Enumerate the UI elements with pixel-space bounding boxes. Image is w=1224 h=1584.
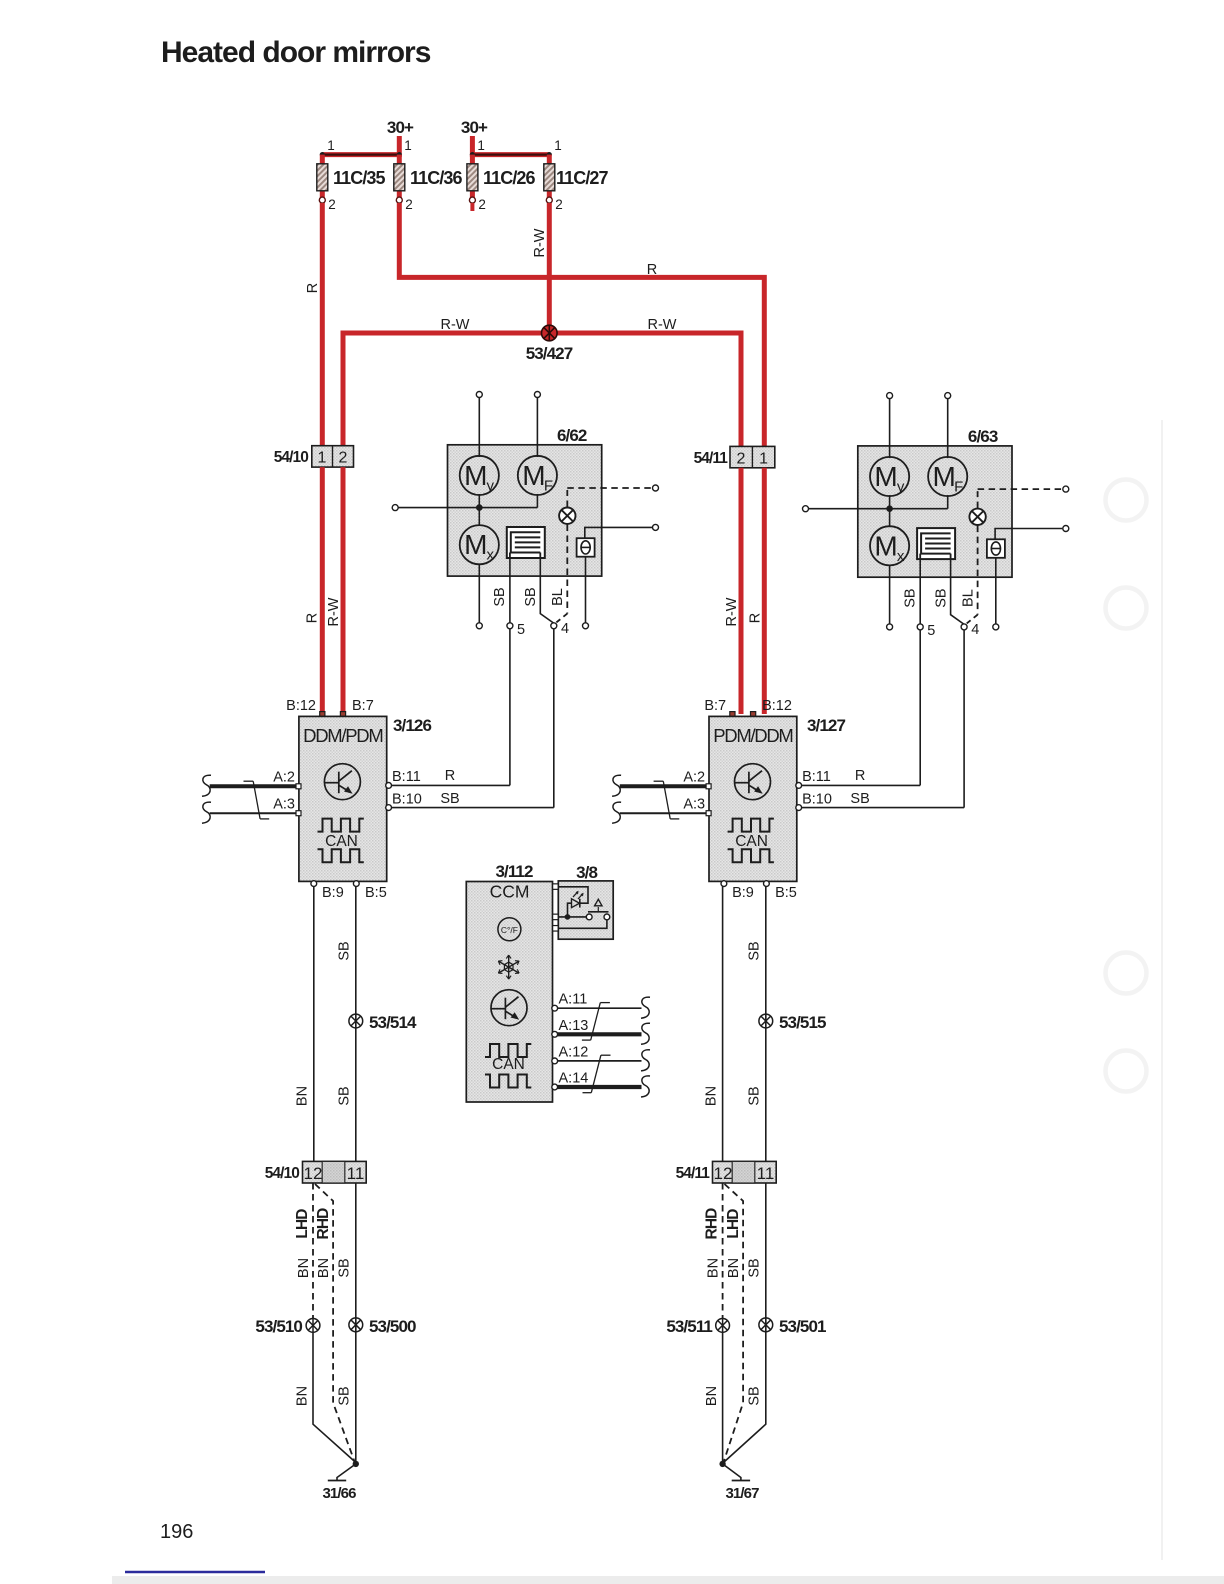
fuse 11C/36 [394, 138, 463, 212]
mirror unit 6/63 body [858, 446, 1012, 577]
splice 53/511 [716, 1319, 730, 1333]
svg-text:A:14: A:14 [559, 1071, 589, 1087]
control module 3/112 label [495, 862, 533, 881]
dashed wire LHD from 54/10 pin12 to splice 53/510 [312, 1183, 314, 1318]
label R [748, 613, 764, 623]
wire CAN-L A:3 of 3/127 [620, 812, 707, 814]
twisted pair marker CCM upper [582, 1003, 610, 1041]
wire R from B:11 of 3/126 [392, 784, 510, 786]
svg-text:2: 2 [339, 450, 348, 467]
svg-text:31/67: 31/67 [725, 1485, 759, 1502]
svg-text:1: 1 [404, 138, 412, 153]
pin B:11 of 3/127 [796, 769, 831, 788]
wire R from fuse 11C/35 pin2 down to connector 54/10 pin 1 [320, 203, 325, 447]
wire fuse 11C/35 body to pin2 [320, 189, 325, 200]
heater element of 6/63 [917, 528, 955, 559]
door module 3/126 title [303, 725, 382, 746]
switch 3/8 body [558, 881, 613, 939]
label SB [337, 1258, 353, 1277]
wire heater pin 5 of 6/62 [509, 558, 511, 623]
label SB on B:10 wire of 3/126 [440, 791, 459, 807]
svg-text:SB: SB [850, 791, 869, 807]
wire stub into 6/63 motor My [889, 446, 891, 458]
svg-text:53/515: 53/515 [779, 1013, 826, 1032]
terminal right solid of 6/62 [653, 524, 659, 530]
terminal above 6/62 My [476, 392, 482, 398]
terminal below Mx of 6/63 [887, 624, 893, 630]
svg-text:11C/36: 11C/36 [410, 168, 463, 188]
wire A:14 CAN bus [558, 1085, 642, 1089]
mirror unit 6/62 body [448, 445, 602, 576]
svg-text:BN: BN [296, 1258, 312, 1278]
door module 3/127 label [807, 716, 845, 735]
door module 3/127 body [709, 716, 797, 881]
pin B:7 of 3/127 [704, 698, 735, 717]
dashed wire BL lamp of 6/62 to terminal 4 [555, 525, 567, 624]
svg-text:y: y [897, 479, 905, 496]
svg-text:RHD: RHD [315, 1208, 332, 1240]
svg-text:SB: SB [337, 1258, 353, 1277]
terminal left of 6/63 [803, 506, 809, 512]
wire fuse 11C/36 body to pin2 [397, 189, 402, 200]
svg-text:BN: BN [704, 1386, 720, 1406]
wire stub 6/62 MF to crossbar [536, 494, 538, 508]
wire SB from B:10 of 3/127 [802, 807, 965, 809]
label BL of 6/62 [550, 588, 566, 606]
svg-text:54/10: 54/10 [274, 449, 309, 466]
svg-text:2: 2 [328, 197, 336, 212]
svg-text:3/127: 3/127 [807, 716, 845, 735]
svg-text:1: 1 [554, 138, 562, 153]
svg-text:A:2: A:2 [273, 770, 295, 786]
wire CAN-L A:3 of 3/126 [210, 812, 297, 814]
CAN symbol in 3/126 [318, 819, 364, 863]
heater element of 6/62 [507, 527, 545, 558]
label R on 11C/35 wire [305, 283, 321, 293]
label BN [296, 1258, 312, 1278]
label 53/427 [526, 344, 573, 363]
wire SB from 54/10 pin11 through splice 53/500 to ground 31/66 [355, 1183, 357, 1463]
wire stub into 6/63 motor MF [947, 446, 949, 458]
svg-text:4: 4 [561, 621, 569, 637]
cable break squiggle A:2 of 3/126 [202, 775, 211, 796]
svg-text:A:2: A:2 [683, 770, 705, 786]
terminal below theta of 6/62 [583, 623, 589, 629]
wire theta of 6/62 to right terminal [585, 527, 652, 538]
wire heater pin 4 of 6/63 [951, 559, 964, 624]
wire SB from 3/127 B:5 to 54/11 pin 11 [765, 887, 767, 1162]
pin B:12 of 3/127 [751, 698, 792, 717]
label 53/500 [369, 1317, 416, 1336]
wire R from fuse 11C/36 pin2 to connector 54/11 pin 1 [399, 203, 764, 447]
wire to 6/63 motor MF [947, 398, 949, 509]
label 31/67 [725, 1485, 759, 1502]
svg-text:R: R [748, 613, 764, 623]
svg-text:SB: SB [523, 587, 539, 606]
wire between 6/62 My and Mx [478, 494, 480, 526]
svg-text:B:5: B:5 [775, 885, 797, 901]
dashed wire RHD from 54/10 pin12 [315, 1184, 355, 1462]
svg-text:2: 2 [737, 451, 746, 468]
motor MF of 6/62 [518, 456, 557, 495]
wire left pin of 6/62 [398, 507, 537, 509]
wire theta of 6/62 down to terminal [585, 557, 587, 623]
svg-text:B:11: B:11 [392, 769, 421, 785]
svg-text:R: R [305, 283, 321, 293]
svg-text:M: M [464, 529, 487, 560]
junction dot in 6/62 [476, 504, 483, 511]
wire heater pin 4 of 6/62 [540, 558, 553, 623]
cable break squiggle A:13 [641, 1023, 650, 1044]
svg-text:M: M [522, 460, 545, 491]
label 53/515 [779, 1013, 826, 1032]
svg-text:5: 5 [517, 622, 525, 638]
splice 53/500 [349, 1318, 363, 1332]
svg-text:2: 2 [555, 197, 563, 212]
wire Mx of 6/63 to terminal [889, 565, 891, 624]
node 30+ (left feed) [387, 118, 414, 137]
svg-text:R-W: R-W [326, 597, 342, 626]
pin A:3 of 3/127 [683, 797, 711, 816]
pin A:3 of 3/126 [273, 797, 301, 816]
cable break squiggle A:3 of 3/126 [202, 802, 211, 823]
svg-text:53/501: 53/501 [779, 1317, 826, 1336]
wire A:11 CAN bus [558, 1007, 642, 1009]
label 53/514 [369, 1013, 417, 1032]
pin B:5 of 3/126 [353, 881, 386, 901]
wire Mx of 6/62 to terminal [478, 564, 480, 623]
svg-text:M: M [464, 460, 487, 491]
svg-text:A:3: A:3 [683, 797, 705, 813]
wire R-W from 54/11 pin2 to 3/127 B:7 [739, 468, 744, 714]
svg-text:CCM: CCM [490, 882, 530, 902]
lamp (heater indicator) of 6/63 [969, 509, 985, 525]
svg-text:SB: SB [747, 1386, 763, 1405]
svg-text:B:9: B:9 [732, 885, 754, 901]
connector 54/10 (bottom) [265, 1161, 366, 1183]
label SB [747, 941, 763, 960]
svg-text:R: R [855, 768, 865, 784]
svg-text:12: 12 [304, 1164, 323, 1183]
label R-W on 11C/27 wire [532, 228, 548, 257]
snowflake symbol in CCM [498, 955, 519, 979]
motor Mx of 6/63 [870, 526, 909, 565]
pin A:2 of 3/126 [273, 770, 301, 789]
svg-text:30+: 30+ [387, 118, 414, 137]
svg-text:2: 2 [478, 197, 486, 212]
terminal 4 of 6/62 [551, 623, 557, 629]
connector 54/10 (top) [274, 446, 354, 467]
svg-text:BL: BL [550, 588, 566, 606]
svg-text:53/511: 53/511 [666, 1317, 712, 1336]
svg-text:CAN: CAN [325, 833, 358, 850]
svg-text:B:12: B:12 [286, 698, 316, 714]
svg-text:y: y [487, 477, 495, 494]
svg-text:B:7: B:7 [704, 698, 726, 714]
label LHD [725, 1209, 742, 1239]
wire SB from B:10 of 3/126 [392, 807, 554, 809]
wire fuse 11C/26 pin1 to fuse body [470, 155, 475, 166]
motor Mx of 6/62 [460, 525, 499, 564]
wire stub into 6/62 motor My [478, 445, 480, 457]
label SB on pin5 wire of 6/63 [902, 588, 918, 607]
label RHD [315, 1208, 332, 1240]
label SB [747, 1386, 763, 1405]
pin A:11 of CCM [552, 992, 587, 1011]
svg-text:1: 1 [759, 451, 768, 468]
CCM title [490, 882, 530, 902]
wire theta of 6/63 to right terminal [995, 529, 1062, 540]
svg-text:SB: SB [440, 791, 459, 807]
label BN [704, 1086, 720, 1106]
svg-text:B:10: B:10 [392, 792, 422, 808]
wire CAN-H A:2 of 3/127 [620, 784, 707, 788]
pin CCM to 3/8 mid [553, 914, 559, 920]
wire to 6/63 motor My [889, 398, 891, 509]
label 53/511 [666, 1317, 712, 1336]
svg-text:1: 1 [327, 138, 335, 153]
svg-text:B:5: B:5 [365, 885, 387, 901]
temperature sensor theta of 6/62 [577, 538, 595, 557]
temperature sensor theta of 6/63 [987, 539, 1005, 558]
pin A:2 of 3/127 [683, 770, 711, 789]
dashed wire lamp of 6/62 to right terminal [567, 488, 652, 507]
svg-text:A:12: A:12 [559, 1044, 589, 1060]
svg-text:Heated door mirrors: Heated door mirrors [161, 36, 431, 69]
twisted pair marker CCM lower [583, 1055, 611, 1093]
svg-text:54/11: 54/11 [694, 450, 729, 467]
svg-text:3/126: 3/126 [393, 716, 431, 735]
wire CAN-H A:2 of 3/126 [210, 784, 297, 788]
label 53/501 [779, 1317, 826, 1336]
hole punch artifacts [1106, 480, 1147, 1092]
svg-text:M: M [874, 530, 897, 561]
label BN [704, 1386, 720, 1406]
label BN [706, 1258, 722, 1278]
CAN symbol in CCM [485, 1044, 531, 1088]
svg-text:RHD: RHD [704, 1208, 721, 1240]
label LHD [294, 1209, 311, 1239]
motor MF of 6/63 [928, 457, 967, 496]
terminal above 6/63 MF [945, 393, 951, 399]
svg-text:SB: SB [492, 587, 508, 606]
pin CCM to 3/8 bottom [553, 926, 559, 932]
wire SB 6/63 pin5 to 3/127 B:11 row [919, 630, 921, 785]
wire fuse 11C/26 body to pin2 [470, 189, 475, 200]
svg-text:6/63: 6/63 [968, 427, 998, 446]
wire A:12 CAN bus [558, 1060, 642, 1062]
svg-text:BL: BL [960, 589, 976, 607]
pin A:14 of CCM [552, 1071, 589, 1090]
svg-text:R-W: R-W [441, 317, 470, 333]
svg-text:BN: BN [316, 1258, 332, 1278]
svg-text:LHD: LHD [294, 1209, 311, 1239]
pin B:12 of 3/126 [286, 698, 325, 717]
label BN [726, 1258, 742, 1278]
svg-text:4: 4 [971, 622, 979, 638]
terminal below theta of 6/63 [993, 624, 999, 630]
svg-text:R: R [445, 768, 455, 784]
label BN [295, 1086, 311, 1106]
svg-text:1: 1 [318, 450, 327, 467]
splice 53/501 [759, 1318, 773, 1332]
splice 53/427 [542, 325, 558, 341]
splice 53/514 [349, 1014, 363, 1028]
wire stub below fuse 11C/26 pin2 [470, 203, 474, 211]
svg-text:B:11: B:11 [802, 769, 831, 785]
wire theta of 6/63 down to terminal [995, 558, 997, 624]
terminal left of 6/62 [392, 505, 398, 511]
wire between 6/63 My and Mx [889, 495, 891, 527]
svg-text:11C/27: 11C/27 [556, 168, 609, 188]
svg-text:54/11: 54/11 [676, 1165, 711, 1182]
svg-text:54/10: 54/10 [265, 1165, 300, 1182]
wire fuse 11C/35 pin1 to fuse body [320, 155, 325, 166]
svg-text:R-W: R-W [724, 597, 740, 626]
label 5 of 6/62 [517, 622, 525, 638]
pin B:7 of 3/126 [340, 698, 373, 717]
label 5 of 6/63 [927, 623, 935, 639]
svg-text:53/500: 53/500 [369, 1317, 416, 1336]
wire R from 54/11 pin1 to 3/127 B:12 [762, 468, 767, 714]
output transistor symbol in 3/126 [324, 764, 360, 800]
svg-text:B:7: B:7 [352, 698, 374, 714]
label R-W [326, 597, 342, 626]
lamp (heater indicator) of 6/62 [559, 508, 575, 524]
svg-text:CAN: CAN [735, 833, 768, 850]
svg-text:SB: SB [337, 1386, 353, 1405]
svg-text:BN: BN [704, 1086, 720, 1106]
label SB on B:10 wire of 3/127 [850, 791, 869, 807]
twisted pair marker at 3/127 [654, 781, 680, 819]
svg-text:53/427: 53/427 [526, 344, 573, 363]
pin B:9 of 3/127 [721, 881, 754, 901]
wire BN from splice 53/511 to ground 31/67 [722, 1333, 724, 1463]
splice 53/510 [306, 1319, 320, 1333]
svg-text:BN: BN [295, 1086, 311, 1106]
pin B:11 of 3/126 [386, 769, 421, 788]
motor My of 6/62 [460, 456, 499, 495]
svg-text:1: 1 [477, 138, 485, 153]
pin CCM to 3/8 top [553, 884, 559, 890]
cable break squiggle A:2 of 3/127 [612, 775, 621, 796]
transistor symbol in CCM [491, 990, 527, 1026]
wire fuse 11C/36 pin1 to fuse body [397, 155, 402, 166]
svg-text:M: M [933, 461, 956, 492]
door module 3/126 label [393, 716, 431, 735]
svg-text:11: 11 [757, 1164, 775, 1183]
svg-text:31/66: 31/66 [322, 1485, 356, 1502]
CAN symbol in 3/127 [728, 819, 774, 863]
svg-text:BN: BN [726, 1258, 742, 1278]
pin A:13 of CCM [552, 1018, 589, 1037]
twisted pair marker at 3/126 [244, 781, 270, 819]
label 4 of 6/62 [561, 621, 569, 637]
terminal above 6/62 MF [534, 392, 540, 398]
wire R-W splice 53/427 to connector 54/10 pin 2 [343, 333, 549, 447]
door module 3/127 title [713, 725, 792, 746]
svg-text:M: M [874, 461, 897, 492]
svg-text:A:13: A:13 [559, 1018, 589, 1034]
svg-text:CAN: CAN [492, 1056, 525, 1073]
svg-text:12: 12 [714, 1164, 733, 1183]
svg-text:F: F [954, 479, 963, 496]
label SB [337, 941, 353, 960]
terminal above 6/63 My [887, 393, 893, 399]
pin B:5 of 3/127 [764, 881, 797, 901]
svg-text:BN: BN [295, 1386, 311, 1406]
label R-W [724, 597, 740, 626]
label R-W left branch [441, 317, 470, 333]
wire stub 6/63 MF to crossbar [947, 495, 949, 509]
pin B:9 of 3/126 [311, 881, 344, 901]
switch 3/8 LED circuit [558, 887, 588, 917]
pin B:10 of 3/127 [796, 792, 832, 811]
label 31/66 [322, 1485, 356, 1502]
wire stub into 6/62 motor MF [536, 445, 538, 457]
svg-text:30+: 30+ [461, 118, 488, 137]
label SB [747, 1258, 763, 1277]
svg-text:R-W: R-W [532, 228, 548, 257]
label BL of 6/63 [960, 589, 976, 607]
wire SB from 3/126 B:5 to 54/10 pin 11 [355, 887, 357, 1162]
wire A:13 CAN bus [558, 1032, 642, 1036]
svg-text:DDM/PDM: DDM/PDM [303, 725, 382, 746]
terminal 5 of 6/63 [917, 624, 923, 630]
terminal 5 of 6/62 [507, 623, 513, 629]
dashed wire BL lamp of 6/63 to terminal 4 [965, 526, 977, 625]
pin A:12 of CCM [552, 1044, 589, 1063]
dashed wire RHD from 54/11 pin12 to splice 53/511 [722, 1183, 724, 1318]
label BN [316, 1258, 332, 1278]
svg-text:BN: BN [706, 1258, 722, 1278]
svg-text:3/8: 3/8 [576, 863, 597, 882]
svg-text:SB: SB [902, 588, 918, 607]
svg-text:A:11: A:11 [559, 992, 588, 1008]
pin B:10 of 3/126 [386, 792, 422, 811]
label R-W right branch [648, 317, 677, 333]
motor My of 6/63 [870, 457, 909, 496]
wire R-W from fuse 11C/27 pin2 to splice 53/427 [547, 203, 552, 333]
page number 196 [160, 1521, 193, 1543]
terminal 4 of 6/63 [961, 624, 967, 630]
label BN [295, 1386, 311, 1406]
svg-text:SB: SB [337, 1086, 353, 1105]
svg-text:F: F [544, 477, 553, 494]
wire fuse 11C/27 body to pin2 [547, 189, 552, 200]
wire SB 6/62 pin5 to 3/126 B:11 row [509, 629, 511, 785]
wire to 6/62 motor My [478, 397, 480, 508]
svg-text:x: x [487, 547, 495, 564]
bottom rule blue [125, 1571, 265, 1574]
label SB [337, 1386, 353, 1405]
label R on B:11 wire of 3/127 [855, 768, 865, 784]
mirror unit 6/63 label [968, 427, 998, 446]
cable break squiggle A:3 of 3/127 [612, 802, 621, 823]
label R on horizontal feed to 54/11 [647, 262, 657, 278]
svg-text:R-W: R-W [648, 317, 677, 333]
ground node 31/66 [328, 1461, 359, 1481]
label 53/510 [255, 1317, 302, 1336]
svg-text:53/514: 53/514 [369, 1013, 417, 1032]
connector 54/11 (top) [694, 446, 775, 467]
label R on B:11 wire of 3/126 [445, 768, 455, 784]
connector 54/11 (bottom) [676, 1161, 777, 1183]
label 4 of 6/63 [971, 622, 979, 638]
cable break squiggle A:12 [641, 1050, 650, 1071]
svg-text:R: R [647, 262, 657, 278]
page edge shadow [1161, 420, 1163, 1560]
